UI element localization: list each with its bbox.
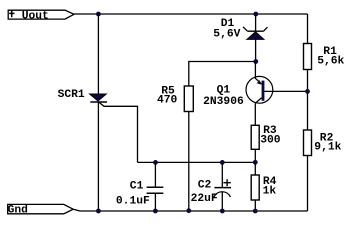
svg-text:SCR1: SCR1 (58, 89, 85, 101)
resistor R2 (304, 130, 312, 156)
svg-text:2N3906: 2N3906 (203, 96, 244, 108)
wire R3 to junction (254, 149, 256, 162)
wire R2 to ground rail (307, 156, 309, 212)
node gnd R5 junction (186, 208, 191, 213)
svg-text:0.1uF: 0.1uF (116, 196, 150, 208)
capacitor C1 (147, 162, 164, 211)
wire SCR anode (97, 14, 99, 94)
svg-text:Q1: Q1 (217, 84, 231, 96)
svg-text:9,1k: 9,1k (314, 142, 341, 154)
node gnd C1 junction (153, 209, 158, 214)
svg-text:300: 300 (260, 135, 281, 147)
node D1/R5/Q1 junction (253, 59, 258, 64)
resistor R1 (304, 44, 312, 70)
wire right rail (307, 14, 309, 44)
svg-text:5,6k: 5,6k (317, 56, 344, 68)
wire gate bus (138, 161, 256, 163)
net flag Gnd (8, 204, 74, 216)
net flag +Uout (8, 10, 74, 23)
wire bottom rail (73, 209, 307, 211)
node R3/R4 junction (253, 160, 258, 165)
wire R5 to ground rail (188, 112, 190, 212)
svg-text:22uF: 22uF (191, 193, 218, 205)
node gnd R4 junction (253, 209, 258, 214)
resistor R5 (184, 86, 193, 112)
resistor R3 (251, 125, 259, 149)
wire SCR gate (99, 102, 138, 162)
thyristor SCR1 (90, 94, 107, 102)
wire R1 to R2 (307, 70, 309, 131)
node gnd C2 junction (220, 209, 225, 214)
node C2 bus junction (220, 160, 225, 165)
capacitor C2 polarized (214, 162, 231, 211)
zener diode D1 (243, 14, 268, 62)
svg-text:Uout: Uout (22, 10, 49, 22)
node gnd SCR junction (96, 209, 101, 214)
label C2 plus (223, 179, 230, 186)
svg-text:C1: C1 (130, 180, 144, 192)
transistor Q1 (246, 62, 308, 126)
node top-left junction (96, 12, 101, 17)
wire junction to R4 (254, 162, 256, 175)
svg-text:470: 470 (157, 95, 178, 107)
wire SCR cathode (97, 102, 99, 211)
svg-text:Gnd: Gnd (8, 204, 28, 216)
node C1 bus junction (153, 160, 158, 165)
resistor R4 (251, 175, 259, 200)
node base junction (305, 89, 310, 94)
svg-text:1k: 1k (263, 185, 277, 197)
svg-text:5,6V: 5,6V (213, 28, 240, 40)
wire R4 to ground rail (254, 200, 256, 211)
wire junction to R5 (189, 62, 256, 87)
svg-text:C2: C2 (198, 180, 212, 192)
node top D1 junction (253, 12, 258, 17)
wire top rail (74, 13, 308, 15)
